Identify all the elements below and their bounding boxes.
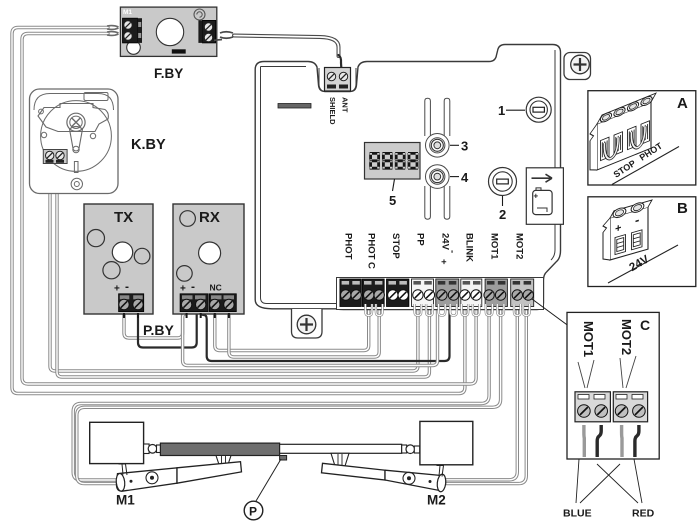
label BLUE with pointers [563, 459, 620, 520]
actuator arm M2 [322, 463, 447, 492]
detail box C [567, 312, 659, 459]
gate leaf bar white [280, 444, 402, 453]
3D terminal block with STOP/PHOT jumpers [590, 93, 656, 173]
bracket under M1 bar [216, 456, 231, 467]
svg-text:BLUE: BLUE [563, 508, 592, 520]
wire RX NC1 to PHOT C left [215, 306, 369, 351]
terminal block 24V [436, 279, 459, 307]
terminal block PP [412, 279, 435, 307]
control board outline [255, 45, 560, 310]
detail box A [588, 91, 696, 185]
flasher left terminal [123, 18, 143, 43]
wire F.BY antenna coax cable [234, 36, 339, 57]
svg-text:ANT: ANT [341, 97, 350, 113]
trimmer 2 [489, 168, 517, 196]
wire MOT2 left to motor M2 [446, 306, 517, 480]
antenna terminal block SHIELD/ANT [325, 68, 351, 92]
svg-text:-: - [635, 212, 639, 228]
svg-text:MOT2: MOT2 [619, 319, 634, 355]
svg-text:+: + [534, 192, 539, 201]
svg-text:-: - [125, 280, 129, 294]
svg-text:RED: RED [632, 508, 655, 520]
terminal strip outline [337, 278, 544, 310]
slot bar top-left of board [278, 104, 311, 109]
wire RX minus to 24V right (black) [201, 306, 450, 361]
svg-text:MOT1: MOT1 [489, 233, 500, 260]
wire end ticks below TX/RX [124, 313, 229, 318]
svg-text:K.BY: K.BY [131, 137, 166, 153]
svg-text:BLINK: BLINK [464, 233, 475, 262]
terminal block MOT1 [484, 279, 508, 307]
svg-text:5: 5 [389, 193, 396, 208]
trimmer 1 [526, 97, 551, 122]
label 2 with pointer [499, 196, 506, 222]
svg-text:P.BY: P.BY [143, 322, 175, 338]
wire RX NC2 to PHOT C right [229, 306, 379, 357]
wire MOT2 right to motor M2 [446, 306, 526, 484]
svg-text:PHOT: PHOT [343, 233, 354, 260]
photocell TX body [84, 204, 153, 314]
svg-text:TX: TX [114, 209, 133, 226]
3D terminal block 24V [603, 199, 652, 262]
ball joint right [402, 445, 420, 454]
wire TX plus to RX [124, 312, 183, 338]
svg-text:1: 1 [498, 103, 505, 118]
svg-text:MOT1: MOT1 [581, 321, 596, 357]
wire K.BY lead 1 to PP left [50, 163, 418, 371]
key switch terminal block [43, 150, 67, 164]
gate post M2 [420, 421, 473, 464]
wire F.BY flasher lead 2 to BLINK right [22, 34, 476, 385]
svg-text:+: + [114, 284, 120, 295]
svg-text:-: - [191, 280, 195, 294]
wire K.BY lead 2 to PP right [57, 163, 429, 377]
terminal block BLINK [460, 279, 482, 307]
wire MOT1 left to motor M1 [73, 306, 489, 480]
bracket M2 post to arm [437, 466, 444, 477]
svg-text:M1: M1 [116, 493, 135, 508]
svg-text:M1: M1 [123, 9, 132, 16]
wire fork tips at F.BY left [107, 26, 119, 36]
battery connector box [526, 168, 563, 225]
photocell RX body [173, 204, 244, 314]
svg-text:SHIELD: SHIELD [328, 97, 337, 125]
label P with pointer [244, 459, 281, 520]
svg-text:+: + [180, 284, 186, 295]
wire F.BY flasher lead 1 to BLINK left [12, 28, 465, 394]
svg-text:PP: PP [415, 233, 426, 246]
wire end hooks below terminal strip [365, 304, 529, 316]
label 3 with pointer [450, 139, 468, 154]
flasher F.BY body [120, 7, 216, 56]
display 8888 [365, 143, 421, 180]
svg-text:24V: 24V [440, 233, 451, 251]
wire RX plus to 24V left [183, 306, 438, 366]
wire fork tips at F.BY right [214, 32, 233, 41]
terminal block MOT2 [511, 279, 534, 307]
svg-text:C: C [640, 317, 650, 333]
svg-text:-: - [447, 250, 458, 253]
svg-text:PHOT C: PHOT C [366, 233, 377, 269]
wire antenna core tip into ANT terminal [339, 55, 342, 71]
svg-text:STOP: STOP [390, 233, 401, 259]
button 4 keyhole fork from below [425, 165, 450, 219]
terminal block STOP [387, 279, 409, 307]
svg-text:4: 4 [461, 170, 469, 185]
label RED with pointers [597, 459, 655, 520]
svg-text:F.BY: F.BY [154, 66, 183, 81]
terminal labels rotated [343, 233, 525, 269]
detail box B [588, 197, 696, 287]
svg-text:MOT2: MOT2 [514, 233, 525, 259]
detail wires below C [584, 425, 639, 457]
flasher right terminal [198, 20, 215, 43]
svg-text:B: B [677, 200, 688, 217]
label 4 with pointer [450, 170, 469, 185]
label 1 with pointer [498, 103, 525, 118]
svg-text:M2: M2 [427, 493, 446, 508]
terminal block MOT1 detail [575, 392, 610, 422]
key switch K.BY body [30, 89, 119, 194]
svg-text:+: + [438, 259, 449, 265]
gate leaf bar dark [160, 443, 286, 460]
svg-text:3: 3 [461, 139, 468, 154]
photocell RX terminals [180, 294, 236, 312]
antenna terminal recess [319, 68, 356, 92]
terminal block MOT2 detail [613, 392, 647, 422]
ball joint left [144, 444, 162, 454]
photocell TX terminal [119, 294, 144, 312]
svg-text:P: P [249, 505, 257, 519]
wire TX minus to RX (black) [138, 312, 197, 348]
gate post M1 [90, 422, 144, 463]
svg-text:+: + [615, 222, 622, 236]
wire MOT1 right to motor M1 [77, 306, 501, 484]
actuator arm M1 [115, 462, 241, 492]
bracket under white rod [331, 453, 349, 466]
svg-text:2: 2 [499, 207, 506, 222]
bracket M1 post to arm [119, 464, 128, 475]
screw tab top-right [564, 53, 591, 80]
screw tab bottom-left [292, 309, 323, 338]
callout line MOT2 to box C [532, 299, 570, 327]
svg-text:RX: RX [199, 209, 220, 226]
svg-text:A: A [677, 95, 688, 112]
svg-text:NC: NC [210, 283, 222, 293]
label 5 with pointer [389, 179, 396, 208]
button 3 keyhole fork from above [425, 98, 450, 157]
terminal block PHOT C [362, 279, 384, 307]
terminal block PHOT [340, 279, 362, 307]
